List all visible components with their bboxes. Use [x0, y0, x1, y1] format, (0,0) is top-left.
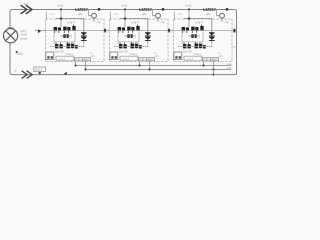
wire internal top rail module 2	[120, 19, 148, 43]
connector J1 (inline plug, top feed)	[21, 5, 32, 14]
terminal block P31	[203, 57, 211, 61]
label LA1 value 12V 21W lamp	[21, 29, 28, 41]
svg-text:adj: adj	[142, 12, 146, 16]
svg-text:u.3: u.3	[178, 12, 182, 16]
svg-text:adj: adj	[78, 12, 82, 16]
transistor Q2a	[118, 27, 125, 33]
node feed junction module 2	[124, 8, 126, 10]
svg-text:TIP41: TIP41	[194, 52, 202, 56]
wire RN2 leads	[124, 35, 136, 37]
svg-text:BD140: BD140	[55, 50, 64, 54]
transistor Q1d	[55, 42, 63, 48]
node feed meets internal rail module 2	[124, 17, 126, 19]
transistor Q2b	[127, 27, 134, 33]
node module 3 return on bottom bus	[213, 74, 215, 76]
svg-text:u.2: u.2	[114, 12, 118, 16]
connector CN3	[174, 52, 182, 60]
svg-text:out1: out1	[204, 57, 210, 61]
wire row2 signal path module 1	[50, 43, 84, 47]
wire module 1 input stub	[35, 30, 46, 32]
node bus junction right module 1	[98, 8, 101, 11]
svg-text:out: out	[97, 20, 101, 24]
svg-text:12v: 12v	[91, 54, 96, 58]
diode D1s series mark	[104, 29, 106, 33]
svg-text:Vin1: Vin1	[57, 3, 63, 7]
transistor Q3e	[195, 42, 203, 49]
svg-text:gnd: gnd	[149, 57, 154, 61]
label J2 net name DC (boxed)	[34, 67, 46, 72]
node P11 on rail A	[74, 64, 76, 66]
svg-text:out1: out1	[76, 57, 82, 61]
diode D2a	[145, 32, 151, 36]
svg-text:A.R.F: A.R.F	[67, 21, 75, 25]
node bus junction right module 2	[162, 8, 165, 11]
wire feed drop into module 2	[124, 10, 126, 28]
svg-text:Vin2: Vin2	[121, 3, 127, 7]
node feed meets internal rail module 3	[188, 17, 190, 19]
svg-text:mod.2: mod.2	[122, 57, 130, 61]
svg-text:adj: adj	[206, 12, 210, 16]
diode D0 series polarity mark	[38, 29, 41, 33]
connector CN2	[110, 52, 118, 60]
transistor Q3b	[191, 27, 198, 33]
svg-text:mod.3: mod.3	[186, 57, 194, 61]
svg-text:A.R.F: A.R.F	[195, 21, 203, 25]
svg-text:12v: 12v	[155, 54, 160, 58]
label DC input polarity	[15, 52, 24, 56]
svg-text:out1: out1	[140, 57, 146, 61]
resistor network RN2	[127, 34, 133, 38]
transistor Q1f	[75, 45, 78, 49]
wire internal links module 3	[182, 31, 203, 44]
svg-text:TIP41: TIP41	[130, 52, 138, 56]
node feed junction module 3	[188, 8, 190, 10]
transistor Q3f	[203, 45, 206, 49]
connector J2 (inline plug, bottom return)	[22, 71, 33, 79]
wire row1 signal path module 1	[46, 30, 105, 32]
transistor Q2c	[136, 25, 139, 31]
svg-text:TIP41: TIP41	[66, 52, 74, 56]
node P12 on rail B	[84, 68, 86, 70]
node feed meets internal rail module 1	[60, 17, 62, 19]
svg-text:ac1: ac1	[23, 2, 28, 6]
transistor Q2d	[119, 42, 127, 48]
node bus junction right module 3	[226, 8, 229, 11]
lamp LA1 (12V 21W, circle with X)	[4, 28, 18, 43]
svg-text:BD140: BD140	[119, 50, 128, 54]
wire left edge entry stub module 2	[109, 12, 111, 20]
wire right return bus	[236, 11, 238, 75]
indicator lamp L3	[217, 10, 225, 23]
wire internal top rail module 3	[184, 19, 212, 43]
node P22 on rail B	[148, 68, 150, 70]
svg-text:mod.1: mod.1	[58, 57, 66, 61]
transistor Q3c	[200, 25, 203, 31]
diode D1a	[81, 32, 87, 36]
wire RN1 leads	[60, 35, 72, 37]
svg-text:lamp: lamp	[21, 36, 28, 40]
wire feed drop into module 1	[60, 10, 62, 28]
wire row2 signal path module 3	[178, 43, 212, 47]
terminal block P22	[148, 57, 155, 61]
wire top supply bus	[10, 10, 237, 29]
diode D1b	[81, 37, 87, 41]
diode D3a	[209, 32, 215, 36]
terminal block P21	[139, 57, 147, 61]
svg-text:gnd: gnd	[85, 57, 90, 61]
wire pin P11 drop	[75, 61, 77, 66]
transistor Q1e	[67, 42, 75, 49]
svg-text:gnd: gnd	[213, 57, 218, 61]
terminal strip TB1 (wide)	[56, 56, 74, 61]
svg-text:out: out	[225, 20, 229, 24]
wire pin P32 drop	[213, 61, 215, 70]
wire pin P31 drop	[203, 61, 205, 66]
module U2 dashed enclosure	[110, 19, 169, 62]
wire feed drop into module 3	[188, 10, 190, 28]
indicator lamp L2	[153, 10, 161, 23]
wire rail OUT-A (all module pins 1)	[76, 62, 232, 66]
transistor Q1b	[63, 27, 70, 33]
wire row2 signal path module 2	[114, 43, 148, 47]
junction node on bottom bus	[63, 72, 67, 75]
connector CN1	[46, 52, 54, 60]
svg-text:out: out	[161, 20, 165, 24]
wire RN3 leads	[188, 35, 200, 37]
node DC tap on bottom bus	[39, 72, 41, 74]
wire left edge entry stub module 1	[45, 12, 47, 20]
wire internal links module 1	[54, 31, 75, 44]
transistor Q2e	[131, 42, 139, 49]
wire row1 signal path module 2	[110, 30, 169, 32]
terminal strip TB3 (wide)	[184, 56, 202, 61]
diode D2s series mark	[168, 29, 170, 33]
wire row1 signal path module 3	[174, 30, 233, 32]
wire module 3 output to return bus	[232, 30, 237, 32]
node P21 on rail A	[138, 64, 140, 66]
svg-text:12v: 12v	[219, 54, 224, 58]
wire series link module 1 to module 2	[102, 30, 110, 32]
terminal block P12	[84, 57, 91, 61]
indicator lamp L1	[89, 10, 97, 23]
node P32 on rail B	[212, 68, 214, 70]
svg-text:BD140: BD140	[183, 50, 192, 54]
svg-text:out: out	[233, 45, 237, 49]
wire series link module 2 to module 3	[166, 30, 174, 32]
wire internal top rail module 1	[56, 19, 84, 43]
transistor Q3d	[183, 42, 191, 48]
svg-text:out-: out-	[227, 66, 232, 70]
node P31 on rail A	[202, 64, 204, 66]
diode D2b	[145, 37, 151, 41]
terminal block P32	[212, 57, 219, 61]
transistor Q2f	[139, 45, 142, 49]
svg-text:DC12: DC12	[35, 68, 43, 72]
transistor Q3a	[182, 27, 189, 33]
terminal block P11	[75, 57, 83, 61]
transistor Q1a	[54, 27, 61, 33]
node feed junction module 1	[60, 8, 62, 10]
terminal strip TB2 (wide)	[120, 56, 138, 61]
wire left edge entry stub module 3	[173, 12, 175, 20]
svg-text:u.1: u.1	[50, 12, 54, 16]
module U3 dashed enclosure	[174, 19, 233, 62]
resistor network RN3	[191, 34, 197, 38]
wire module 3 return to bottom bus	[213, 70, 215, 75]
diode D3b	[209, 37, 215, 41]
wire pin P22 drop	[149, 61, 151, 70]
module U1 dashed enclosure	[46, 19, 105, 62]
transistor Q1c	[72, 25, 75, 31]
wire pin P12 drop	[85, 61, 87, 70]
svg-text:Vin3: Vin3	[185, 3, 191, 7]
svg-text:A.R.F: A.R.F	[131, 21, 139, 25]
resistor network RN1	[63, 34, 69, 38]
wire rail OUT-B (all module pins 2)	[86, 62, 232, 70]
wire bottom return bus	[10, 43, 237, 75]
wire internal links module 2	[118, 31, 139, 44]
diode D3s series mark	[234, 29, 236, 33]
wire pin P21 drop	[139, 61, 141, 66]
